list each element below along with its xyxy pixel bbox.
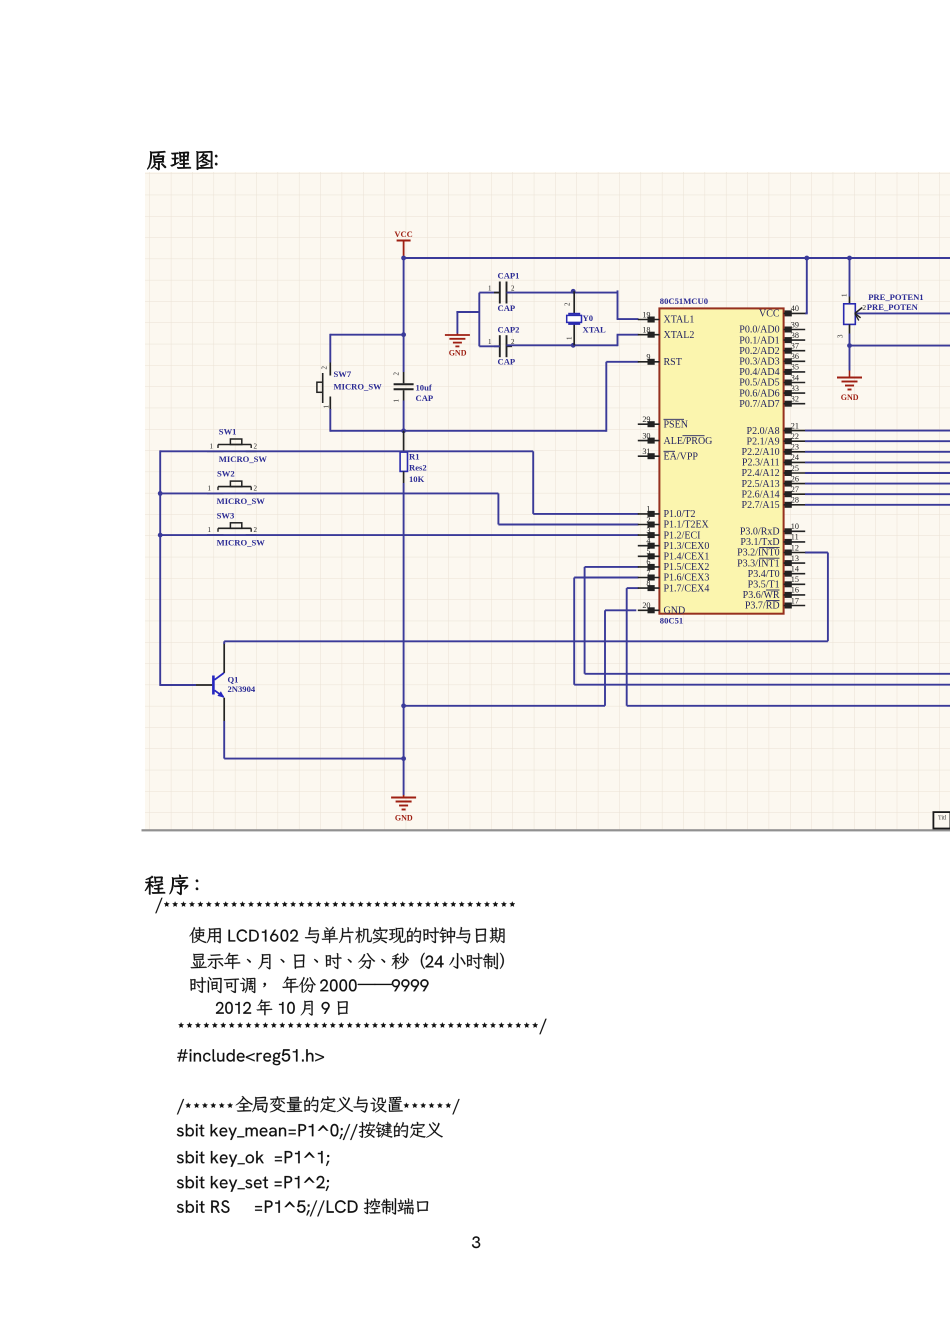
node SW2 bus junction xyxy=(158,491,163,496)
code include line xyxy=(177,1049,324,1065)
wire 10uf to SW7-bottom node xyxy=(403,401,405,431)
svg-text:16: 16 xyxy=(791,586,799,595)
pin 8 P1.7/CEX4 stub xyxy=(638,587,660,589)
pin 28 P2.7/A15 stub xyxy=(784,504,806,506)
wire SW7 bottom to RST xyxy=(329,409,331,432)
svg-text:P3.2/INT0: P3.2/INT0 xyxy=(737,548,780,559)
wire pot top xyxy=(849,258,851,297)
svg-text:35: 35 xyxy=(791,363,799,372)
node emitter-ground junction xyxy=(401,756,406,761)
ground symbol GND (caps) xyxy=(456,334,458,335)
svg-text:39: 39 xyxy=(791,320,799,329)
svg-text:27: 27 xyxy=(791,485,799,494)
svg-text:2: 2 xyxy=(646,515,650,524)
code line sbit key_ok xyxy=(177,1151,329,1167)
capacitor C-10uf xyxy=(394,372,414,401)
svg-text:R1: R1 xyxy=(409,452,420,462)
potentiometer PRE_POTEN1 xyxy=(844,297,856,334)
wire RST riser xyxy=(605,362,607,432)
svg-text:P0.5/AD5: P0.5/AD5 xyxy=(739,378,779,389)
pin 4 P1.3/CEX0 stub xyxy=(638,545,660,547)
wire P2.0/A8 to LCD xyxy=(805,430,950,432)
svg-text:P1.7/CEX4: P1.7/CEX4 xyxy=(664,583,710,594)
svg-text:GND: GND xyxy=(449,349,467,358)
svg-text:P0.2/AD2: P0.2/AD2 xyxy=(739,346,779,357)
svg-text:VCC: VCC xyxy=(394,229,412,239)
pin 24 P2.3/A11 stub xyxy=(784,461,806,463)
svg-text:P3.4/T0: P3.4/T0 xyxy=(748,569,780,580)
pin 34 P0.5/AD5 stub xyxy=(784,382,806,384)
comment text line 2 xyxy=(191,953,504,970)
pin 33 P0.6/AD6 stub xyxy=(784,392,806,394)
pin 40 VCC stub xyxy=(784,312,806,314)
svg-text:13: 13 xyxy=(791,554,799,563)
svg-text:P3.3/INT1: P3.3/INT1 xyxy=(737,558,780,569)
node SW7 bottom junction xyxy=(401,428,406,433)
svg-text:MICRO_SW: MICRO_SW xyxy=(217,496,266,506)
wire XTAL1 link xyxy=(617,290,619,319)
pin 39 P0.0/AD0 stub xyxy=(784,329,806,331)
svg-text:2: 2 xyxy=(321,366,329,370)
svg-text:4: 4 xyxy=(646,537,650,546)
svg-text:2: 2 xyxy=(511,285,515,293)
pin 30 ALE/PROG stub xyxy=(638,440,660,442)
pin 22 P2.1/A9 stub xyxy=(784,440,806,442)
schematic bottom border xyxy=(142,829,950,831)
crystal Y0 body xyxy=(567,314,582,324)
node VCC stem junction xyxy=(401,256,406,261)
wire SW3 row xyxy=(160,534,638,536)
svg-text:10uf: 10uf xyxy=(416,383,432,393)
wire R1 bottom stub xyxy=(403,471,405,483)
resistor R1 (Res2 10K) xyxy=(400,452,407,471)
svg-text:2: 2 xyxy=(393,372,401,376)
capacitor C-CAP1 xyxy=(494,282,512,304)
wire ground vertical xyxy=(403,483,405,796)
svg-text:Q1: Q1 xyxy=(228,675,239,685)
pin name overline xyxy=(683,435,705,437)
svg-text:PRE_POTEN1: PRE_POTEN1 xyxy=(868,292,923,302)
wire R1 top stub xyxy=(403,431,405,452)
svg-text:CAP1: CAP1 xyxy=(498,271,520,281)
wire P2.7/A15 to LCD xyxy=(805,504,950,506)
heading colon 2 xyxy=(196,880,198,890)
wire VCC rail xyxy=(403,257,950,259)
svg-text:P1.0/T2: P1.0/T2 xyxy=(664,509,696,520)
svg-text:GND: GND xyxy=(664,606,686,617)
svg-text:1: 1 xyxy=(208,526,212,534)
pot wiper arrow xyxy=(855,308,863,314)
heading 原理图 (schematic) xyxy=(147,151,213,170)
crystal Y0 pins xyxy=(573,291,575,313)
pin 14 P3.4/T0 stub xyxy=(784,573,806,575)
svg-text:15: 15 xyxy=(791,575,799,584)
schematic sheet background xyxy=(145,172,950,830)
wire P1.7 loop xyxy=(627,587,639,589)
wire P2.3/A11 to LCD xyxy=(805,461,950,463)
wire MCU-GND loop xyxy=(605,609,636,611)
pin name overline xyxy=(766,589,780,591)
pin 10 P3.0/RxD stub xyxy=(784,530,806,532)
pin 15 P3.5/T1 stub xyxy=(784,583,806,585)
svg-text:1: 1 xyxy=(208,484,212,492)
svg-text:CAP: CAP xyxy=(498,303,516,313)
svg-text:PRE_POTEN: PRE_POTEN xyxy=(867,302,919,312)
svg-text:P1.3/CEX0: P1.3/CEX0 xyxy=(664,541,710,552)
code line sbit key_set xyxy=(177,1176,329,1192)
pin name overline xyxy=(664,450,676,452)
svg-text:P3.0/RxD: P3.0/RxD xyxy=(740,527,780,538)
svg-text:29: 29 xyxy=(642,415,650,424)
svg-text:EA/VPP: EA/VPP xyxy=(664,451,699,462)
svg-text:34: 34 xyxy=(791,373,799,382)
wire CAP2 right lead to XTAL2 corner xyxy=(507,344,618,346)
svg-text:P1.1/T2EX: P1.1/T2EX xyxy=(664,520,710,531)
code line sbit key_mean xyxy=(177,1122,443,1140)
pin 23 P2.2/A10 stub xyxy=(784,451,806,453)
wire Q1 emitter xyxy=(223,698,225,721)
svg-text:1: 1 xyxy=(210,442,214,450)
svg-text:P2.7/A15: P2.7/A15 xyxy=(742,500,780,511)
pin 12 P3.2/INT0 stub xyxy=(784,552,806,554)
svg-text:2N3904: 2N3904 xyxy=(228,684,256,694)
svg-text:17: 17 xyxy=(791,596,799,605)
wire pot row right xyxy=(850,345,950,347)
wire CAP2 left lead xyxy=(479,345,500,347)
node VCC riser junction xyxy=(804,256,809,261)
svg-text:GND: GND xyxy=(841,393,859,402)
svg-text:P0.4/AD4: P0.4/AD4 xyxy=(739,367,779,378)
svg-text:24: 24 xyxy=(791,453,799,462)
svg-text:GND: GND xyxy=(395,814,413,823)
wire main vertical from VCC xyxy=(403,258,405,372)
pin name overline xyxy=(759,557,780,559)
svg-text:12: 12 xyxy=(791,543,799,552)
node SW7 top junction xyxy=(401,332,406,337)
pin name overline xyxy=(664,418,685,420)
svg-text:3: 3 xyxy=(646,526,650,535)
svg-text:1: 1 xyxy=(488,338,492,346)
svg-text:1: 1 xyxy=(646,505,650,514)
svg-text:RST: RST xyxy=(664,357,682,368)
pin 3 P1.2/ECI stub xyxy=(638,534,660,536)
svg-text:MICRO_SW: MICRO_SW xyxy=(219,454,268,464)
switch SW7 (MICRO_SW) xyxy=(317,363,330,410)
svg-text:ALE/PROG: ALE/PROG xyxy=(664,436,713,447)
wire XTAL2 link xyxy=(617,335,619,347)
pin 25 P2.4/A12 stub xyxy=(784,472,806,474)
svg-text:1: 1 xyxy=(841,293,849,297)
svg-text:19: 19 xyxy=(642,310,650,319)
comment text line 4 xyxy=(216,999,348,1015)
wire SW2 row xyxy=(160,492,498,494)
node XTAL pin1 junction xyxy=(571,343,576,348)
pin 2 P1.1/T2EX stub xyxy=(638,524,660,526)
svg-text:PSEN: PSEN xyxy=(664,419,688,430)
pin 7 P1.6/CEX3 stub xyxy=(638,577,660,579)
pin 17 P3.7/RD stub xyxy=(784,605,806,607)
svg-text:31: 31 xyxy=(642,447,650,456)
page number 3 xyxy=(472,1236,480,1248)
svg-text:8: 8 xyxy=(646,579,650,588)
wire P2.4/A12 to LCD xyxy=(805,472,950,474)
svg-text:CAP2: CAP2 xyxy=(498,324,520,334)
wire CAP1 left lead xyxy=(479,292,500,294)
capacitor C-CAP2 xyxy=(494,335,512,357)
svg-text:CAP: CAP xyxy=(498,357,516,367)
svg-text:SW3: SW3 xyxy=(217,510,235,520)
svg-text:SW1: SW1 xyxy=(219,427,237,437)
svg-text:40: 40 xyxy=(791,304,799,313)
svg-text:11: 11 xyxy=(791,533,799,542)
svg-text:36: 36 xyxy=(791,352,799,361)
svg-text:MICRO_SW: MICRO_SW xyxy=(217,538,266,548)
svg-text:2: 2 xyxy=(564,302,572,306)
wire CAP1 right lead to XTAL1 corner xyxy=(507,292,618,294)
node XTAL pin2 junction xyxy=(571,289,576,294)
svg-text:33: 33 xyxy=(791,384,799,393)
svg-text:P0.3/AD3: P0.3/AD3 xyxy=(739,357,779,368)
wire emitter row xyxy=(224,758,403,760)
svg-text:26: 26 xyxy=(791,474,799,483)
node ground-wire junction xyxy=(401,703,406,708)
svg-text:1: 1 xyxy=(566,336,574,340)
pin 6 P1.5/CEX2 stub xyxy=(638,566,660,568)
svg-text:28: 28 xyxy=(791,496,799,505)
svg-text:P3.1/TxD: P3.1/TxD xyxy=(740,537,779,548)
schematic grid xyxy=(145,172,950,830)
svg-text:XTAL: XTAL xyxy=(583,324,607,334)
svg-text:5: 5 xyxy=(646,547,650,556)
pin 26 P2.5/A13 stub xyxy=(784,483,806,485)
svg-text:23: 23 xyxy=(791,443,799,452)
wire CAP1-CAP2 link vertical xyxy=(478,293,480,347)
switch SW1 (MICRO_SW) xyxy=(207,450,224,452)
code line sbit RS xyxy=(177,1198,428,1216)
svg-text:80C51: 80C51 xyxy=(660,616,683,626)
wire P2.2/A10 to LCD xyxy=(805,451,950,453)
node SW3 bus junction xyxy=(158,533,163,538)
pin 13 P3.3/INT1 stub xyxy=(784,562,806,564)
svg-text:P2.5/A13: P2.5/A13 xyxy=(742,479,780,490)
svg-text:P2.4/A12: P2.4/A12 xyxy=(742,468,780,479)
svg-text:P0.0/AD0: P0.0/AD0 xyxy=(739,325,779,336)
svg-text:2: 2 xyxy=(254,442,258,450)
svg-text:1: 1 xyxy=(488,285,492,293)
wire P1.6 loop xyxy=(574,577,638,579)
svg-text:1: 1 xyxy=(393,399,401,403)
svg-text:P1.2/ECI: P1.2/ECI xyxy=(664,530,701,541)
pin 16 P3.6/WR stub xyxy=(784,594,806,596)
svg-text:VCC: VCC xyxy=(759,309,780,320)
svg-text:6: 6 xyxy=(646,558,650,567)
title block xyxy=(933,812,950,828)
ic U1 80C51 body xyxy=(659,308,783,613)
svg-text:7: 7 xyxy=(646,568,650,577)
pin 27 P2.6/A14 stub xyxy=(784,493,806,495)
wire collector row xyxy=(224,640,828,642)
svg-text:25: 25 xyxy=(791,464,799,473)
svg-text:Y0: Y0 xyxy=(583,313,594,323)
wire P1.5 loop xyxy=(585,566,639,568)
pin 1 P1.0/T2 stub xyxy=(638,513,660,515)
svg-text:80C51MCU0: 80C51MCU0 xyxy=(660,296,708,306)
svg-text:P0.7/AD7: P0.7/AD7 xyxy=(739,399,779,410)
svg-text:P1.6/CEX3: P1.6/CEX3 xyxy=(664,573,710,584)
pin 5 P1.4/CEX1 stub xyxy=(638,555,660,557)
pin name overline xyxy=(766,600,780,602)
svg-text:XTAL2: XTAL2 xyxy=(664,330,695,341)
svg-text:32: 32 xyxy=(791,395,799,404)
pin 18 XTAL2 stub xyxy=(638,334,660,336)
svg-text:P2.3/A11: P2.3/A11 xyxy=(742,458,780,469)
pin name overline xyxy=(759,547,780,549)
svg-text:38: 38 xyxy=(791,331,799,340)
svg-text:Titl: Titl xyxy=(938,816,947,822)
wire P2.1/A9 to LCD xyxy=(805,440,950,442)
pin 9 RST stub xyxy=(638,361,660,363)
svg-text:2: 2 xyxy=(254,484,258,492)
pin 38 P0.1/AD1 stub xyxy=(784,339,806,341)
heading colon xyxy=(215,155,217,165)
svg-text:SW2: SW2 xyxy=(217,469,235,479)
svg-text:9: 9 xyxy=(646,353,650,362)
svg-text:P2.1/A9: P2.1/A9 xyxy=(747,436,780,447)
svg-text:2: 2 xyxy=(254,526,258,534)
wire SW7 top xyxy=(330,334,403,336)
svg-text:MICRO_SW: MICRO_SW xyxy=(334,381,383,391)
pin 19 XTAL1 stub xyxy=(638,319,660,321)
svg-text:P3.6/WR: P3.6/WR xyxy=(743,590,780,601)
svg-text:XTAL1: XTAL1 xyxy=(664,315,695,326)
pin 29 PSEN stub xyxy=(638,423,660,425)
pin 31 EA/VPP stub xyxy=(638,455,660,457)
svg-text:Res2: Res2 xyxy=(409,463,427,473)
node pot-wire junction xyxy=(847,343,852,348)
wire P2.6/A14 to LCD xyxy=(805,493,950,495)
wire P2.5/A13 to LCD xyxy=(805,483,950,485)
switch SW2 (MICRO_SW) xyxy=(207,492,224,494)
svg-text:P2.0/A8: P2.0/A8 xyxy=(747,426,780,437)
pin 20 GND stub xyxy=(638,609,660,611)
svg-text:22: 22 xyxy=(791,432,799,441)
pot wiper wire xyxy=(855,312,950,314)
svg-text:18: 18 xyxy=(642,326,650,335)
heading 程序 (program) xyxy=(145,875,188,895)
transistor Q1 (2N3904) xyxy=(212,676,215,695)
ground symbol GND (bottom) xyxy=(403,795,405,797)
ground symbol GND (pot) xyxy=(849,371,851,378)
wire Q1 base xyxy=(160,684,196,686)
wire VCC pin riser xyxy=(806,258,808,313)
svg-text:P0.6/AD6: P0.6/AD6 xyxy=(739,388,779,399)
pin 37 P0.2/AD2 stub xyxy=(784,350,806,352)
wire Q1 collector xyxy=(223,643,225,673)
pin 21 P2.0/A8 stub xyxy=(784,430,806,432)
svg-text:20: 20 xyxy=(642,601,650,610)
comment text line 3 xyxy=(190,977,428,994)
svg-text:37: 37 xyxy=(791,342,799,351)
switch SW3 (MICRO_SW) xyxy=(207,534,224,536)
svg-text:1: 1 xyxy=(323,405,331,409)
svg-text:14: 14 xyxy=(791,565,799,574)
svg-text:2: 2 xyxy=(862,303,866,312)
svg-text:10K: 10K xyxy=(409,474,425,484)
pin 36 P0.3/AD3 stub xyxy=(784,360,806,362)
svg-text:P3.5/T1: P3.5/T1 xyxy=(748,580,780,591)
pin 35 P0.4/AD4 stub xyxy=(784,371,806,373)
svg-text:P2.6/A14: P2.6/A14 xyxy=(742,489,780,500)
wire left bus xyxy=(159,450,161,686)
pin 32 P0.7/AD7 stub xyxy=(784,403,806,405)
svg-text:30: 30 xyxy=(642,431,650,440)
code comment 全局变量 xyxy=(177,1096,460,1114)
pin 11 P3.1/TxD stub xyxy=(784,541,806,543)
svg-text:10: 10 xyxy=(791,522,799,531)
svg-text:CAP: CAP xyxy=(416,393,434,403)
svg-text:P3.7/RD: P3.7/RD xyxy=(745,601,780,612)
comment text line 1 xyxy=(189,927,504,944)
wire pot bottom xyxy=(849,334,851,371)
node pot top junction xyxy=(847,256,852,261)
wire GND tap xyxy=(456,311,479,313)
power symbol VCC xyxy=(403,241,405,260)
svg-text:21: 21 xyxy=(791,421,799,430)
svg-text:SW7: SW7 xyxy=(334,369,352,379)
wire SW1 row xyxy=(160,450,533,452)
svg-text:P2.2/A10: P2.2/A10 xyxy=(742,447,780,458)
svg-text:P1.5/CEX2: P1.5/CEX2 xyxy=(664,562,710,573)
svg-text:P0.1/AD1: P0.1/AD1 xyxy=(739,335,779,346)
svg-text:3: 3 xyxy=(837,334,845,338)
svg-text:P1.4/CEX1: P1.4/CEX1 xyxy=(664,552,710,563)
